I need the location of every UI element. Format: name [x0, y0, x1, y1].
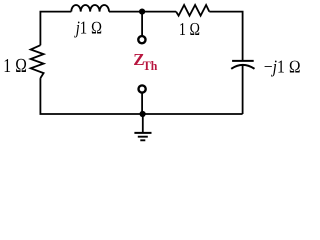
- ground symbol: [134, 133, 151, 140]
- capacitor curved plate: [231, 65, 254, 69]
- wire: stub from top junction to terminal a: [141, 12, 143, 36]
- inductor j1 ohm: [71, 5, 109, 12]
- svg-text:Th: Th: [143, 58, 158, 73]
- terminal a (open circle): [138, 36, 145, 43]
- svg-text:−j1 Ω: −j1 Ω: [264, 56, 301, 76]
- resistor R top 1 ohm: [176, 5, 209, 16]
- svg-text:1 Ω: 1 Ω: [3, 55, 27, 77]
- svg-text:1 Ω: 1 Ω: [179, 19, 200, 39]
- capacitor top plate: [232, 60, 254, 62]
- wire: top-left corner segment: [40, 12, 71, 46]
- junction dot top node: [139, 9, 145, 15]
- svg-text:j1 Ω: j1 Ω: [74, 18, 102, 38]
- wire: bottom segment: [40, 78, 242, 114]
- wire: stub from terminal b to bottom junction: [141, 93, 143, 114]
- junction dot bottom node: [140, 111, 146, 117]
- wire: top middle segment: [109, 11, 176, 13]
- terminal b (open circle): [139, 85, 146, 92]
- wire: capacitor to bottom-right corner: [242, 65, 244, 114]
- wire: top-right corner down to capacitor: [209, 12, 242, 61]
- wire: ground stub: [142, 114, 144, 133]
- resistor R left 1 ohm: [31, 45, 44, 78]
